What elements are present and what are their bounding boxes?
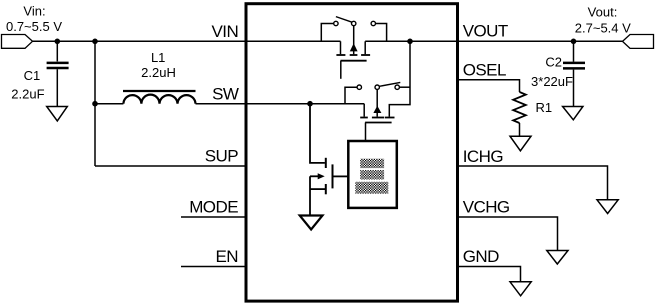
- svg-text:2.2uF: 2.2uF: [11, 87, 44, 102]
- ground below VCHG: [547, 251, 568, 265]
- svg-text:C1: C1: [24, 68, 41, 83]
- svg-text:C2: C2: [545, 55, 562, 70]
- wire SW right: [196, 103, 365, 105]
- node VOUT junction: [407, 39, 413, 45]
- svg-text:ICHG: ICHG: [463, 147, 503, 166]
- svg-text:MODE: MODE: [189, 198, 238, 217]
- control block U2: [348, 141, 397, 208]
- transistor Q3: [310, 104, 348, 215]
- ground below R1: [510, 136, 531, 151]
- svg-text:2.7~5.4 V: 2.7~5.4 V: [575, 21, 631, 36]
- svg-text:GND: GND: [463, 247, 499, 266]
- node SW-L1 junction: [92, 101, 98, 107]
- wire VOUT rail: [365, 40, 622, 42]
- node Vin junction: [55, 39, 61, 45]
- capacitor C1: [47, 41, 69, 106]
- connector Vin: [2, 35, 33, 49]
- node VIN-L1 junction: [92, 39, 98, 45]
- svg-text:SUP: SUP: [205, 147, 239, 166]
- svg-text:3*22uF: 3*22uF: [531, 74, 573, 89]
- wire OSEL: [459, 80, 520, 92]
- wire SW left: [95, 103, 123, 105]
- ground below C1: [47, 107, 68, 121]
- node C2 junction: [571, 39, 577, 45]
- svg-text:R1: R1: [535, 100, 552, 115]
- wire VIN rail: [33, 40, 341, 42]
- svg-text:SW: SW: [212, 84, 239, 103]
- ground below C2: [563, 107, 583, 120]
- wire MODE stub: [181, 216, 245, 218]
- capacitor C2: [563, 41, 585, 106]
- inductor L1: [123, 91, 196, 104]
- node SW-Q3 junction: [307, 101, 313, 107]
- wire GND: [459, 267, 521, 282]
- connector Vout: [623, 35, 654, 49]
- transistor Q2 pass pair: [360, 89, 394, 141]
- wire EN stub: [181, 266, 245, 268]
- wire VCHG: [459, 217, 558, 251]
- wire VIN to SUP vertical: [94, 41, 96, 166]
- wire ICHG: [459, 166, 608, 200]
- ground below Q3: [300, 216, 323, 230]
- svg-text:OSEL: OSEL: [463, 60, 506, 79]
- svg-text:L1: L1: [151, 50, 165, 65]
- svg-text:Vout:: Vout:: [588, 4, 618, 19]
- wire VOUT to Q2: [389, 41, 410, 116]
- switch S2 contacts: [345, 82, 410, 103]
- ground below ICHG: [597, 200, 618, 214]
- transistor Q1 pass pair: [336, 26, 370, 79]
- wire SUP: [95, 165, 245, 167]
- svg-text:EN: EN: [215, 247, 238, 266]
- svg-text:VCHG: VCHG: [463, 197, 510, 216]
- ground below GND pin: [510, 282, 531, 296]
- svg-text:0.7~5.5 V: 0.7~5.5 V: [6, 19, 62, 34]
- svg-text:2.2uH: 2.2uH: [141, 65, 176, 80]
- svg-text:VIN: VIN: [211, 22, 238, 41]
- resistor R1: [513, 92, 526, 136]
- switch S1 contacts: [321, 17, 386, 42]
- svg-text:VOUT: VOUT: [463, 22, 508, 41]
- IC U1 body: [246, 4, 458, 301]
- svg-text:Vin:: Vin:: [23, 3, 45, 18]
